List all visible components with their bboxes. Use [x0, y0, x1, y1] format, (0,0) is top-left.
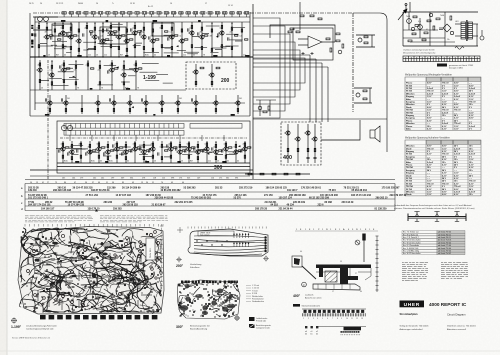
- capacitor C36: [167, 144, 168, 147]
- resistor R57: [241, 29, 243, 32]
- wire module300 upper rail C: [190, 124, 242, 129]
- resistor R70: [99, 65, 101, 68]
- wire stage column x144: [143, 22, 145, 57]
- transistor T45: [140, 150, 146, 154]
- transistor T9: [123, 39, 129, 43]
- power supply schematic frame: [403, 12, 478, 46]
- wire stage link x76: [69, 76, 76, 78]
- figure 300 hatched clusters: [180, 284, 236, 315]
- resistor R43: [181, 29, 183, 32]
- resistor R124: [165, 150, 168, 151]
- resistor R33: [143, 46, 145, 49]
- wire below module400 row: [245, 173, 310, 175]
- wire stage column x90: [89, 141, 91, 163]
- pcb donut pads: [27, 230, 161, 309]
- wire module300 bus a: [57, 162, 250, 164]
- wire stage column x87: [86, 22, 88, 57]
- node J28: [244, 142, 245, 143]
- wire stage link x64: [64, 67, 73, 69]
- wire module300 bus d: [30, 175, 250, 177]
- transistor T12: [149, 39, 155, 43]
- node pointer triangle: [95, 209, 98, 212]
- resistor R128: [179, 144, 181, 147]
- resistor R122: [161, 144, 163, 147]
- wire midrow col 3: [97, 95, 99, 114]
- wire feedback loop: [270, 25, 335, 42]
- capacitor C20: [45, 98, 46, 101]
- module 200 dashed border: [186, 62, 236, 89]
- resistor R125: [170, 143, 172, 146]
- mechanism capstan pin: [363, 234, 365, 262]
- diode D1 bridge: [443, 24, 451, 32]
- mechanism tray ticks: [318, 284, 350, 289]
- capacitor C29: [104, 152, 105, 155]
- wire stage column x212: [211, 22, 213, 57]
- resistor R58: [245, 39, 248, 40]
- pcb board outline 1-199: [18, 227, 164, 315]
- transistor T1: [43, 35, 49, 39]
- resistor R84: [81, 108, 83, 111]
- wire stage column x126: [125, 141, 127, 163]
- resistor R23: [118, 27, 120, 30]
- capacitor C4: [67, 32, 68, 35]
- wire stage column x222: [221, 22, 223, 57]
- wire stage link x71: [64, 35, 71, 37]
- capacitor C43: [241, 149, 242, 152]
- node J7: [94, 23, 95, 24]
- node J18: [123, 61, 124, 62]
- figure 200 stub wires with dots: [234, 233, 249, 247]
- wire stage column x119: [118, 22, 120, 57]
- capacitor C2: [51, 36, 52, 39]
- wire stage column x95: [94, 22, 96, 57]
- page left edge shadow: [6, 0, 8, 355]
- resistor R2: [38, 45, 40, 48]
- capacitor C27: [77, 149, 78, 152]
- parts mini table: [402, 231, 465, 256]
- resistor R143: [235, 144, 237, 147]
- node J10: [118, 23, 119, 24]
- footnote text block german: [25, 216, 93, 222]
- resistor R39: [165, 31, 168, 32]
- wire center divider vertical: [252, 4, 254, 179]
- registration cross figure300: [234, 315, 240, 321]
- transistor T10: [131, 31, 137, 35]
- pcb copper traces: [20, 228, 163, 314]
- wire midrow col 5: [129, 95, 131, 114]
- resistor R18: [102, 29, 104, 32]
- capacitor C12: [149, 36, 150, 39]
- node J23: [170, 142, 171, 143]
- wire dashdot boundary vertical: [352, 13, 354, 112]
- wire stage column x39: [38, 22, 40, 57]
- resistor R142: [229, 147, 232, 148]
- resistor R123: [161, 157, 163, 160]
- capacitor C19: [108, 70, 109, 73]
- resistor R137: [215, 144, 217, 147]
- resistor R74: [123, 65, 125, 68]
- capacitor C23: [141, 98, 142, 101]
- resistor PSU R5: [422, 39, 426, 41]
- resistor R45: [191, 25, 193, 28]
- paragraph german: [402, 263, 428, 281]
- module 400 dashed border: [281, 122, 321, 165]
- transistor T14: [178, 39, 184, 43]
- capacitor C14: [188, 28, 189, 31]
- capacitor C33: [140, 147, 141, 150]
- transistor T21: [108, 68, 114, 72]
- wire module400 output right: [321, 120, 360, 140]
- resistor R26: [126, 29, 128, 32]
- wire stage column x226: [225, 141, 227, 163]
- capacitor C9: [115, 32, 116, 35]
- capacitor C38: [185, 149, 186, 152]
- capacitor C17: [228, 37, 229, 40]
- node J16: [87, 61, 88, 62]
- wire left dashdot boundary: [47, 60, 49, 180]
- legend black tag: [437, 64, 447, 67]
- resistor R114: [129, 150, 132, 151]
- resistor R113: [125, 157, 127, 160]
- resistor R46: [191, 45, 193, 48]
- transistor T54: [232, 150, 238, 154]
- wire stage link x242: [235, 40, 242, 42]
- mechanism mount frame: [292, 256, 302, 267]
- resistor R40: [171, 27, 173, 30]
- resistor R116: [138, 147, 141, 148]
- resistor R79: [200, 67, 204, 69]
- resistor R144: [239, 150, 242, 151]
- resistor R27: [126, 48, 128, 51]
- resistor R52: [221, 25, 223, 28]
- resistor R117: [143, 144, 145, 147]
- resistor R38: [161, 45, 163, 48]
- node J9: [110, 23, 111, 24]
- resistor R118: [143, 157, 145, 160]
- capacitor PSU C1: [439, 28, 443, 30]
- wire stage link x63: [56, 148, 63, 150]
- resistor R151: [314, 148, 316, 151]
- capacitor C40: [203, 149, 204, 152]
- resistor R35: [152, 48, 154, 51]
- wire supply bus top: [35, 21, 250, 23]
- resistor PSU R3: [433, 26, 435, 30]
- resistor R48: [201, 46, 203, 49]
- resistor PSU R1: [413, 16, 417, 18]
- transistor T13: [168, 35, 174, 39]
- mechanism head bar: [316, 265, 371, 269]
- erase head symbol: [480, 30, 484, 40]
- mini strip dots: [341, 333, 361, 336]
- wire midrow col 6: [145, 95, 147, 114]
- wire stage column x136: [135, 60, 137, 90]
- logo UHER: [400, 301, 425, 308]
- resistor R71: [99, 82, 101, 85]
- node J14: [51, 61, 52, 62]
- mechanism pin index row: [296, 228, 375, 231]
- wire top-left input cluster: [33, 17, 58, 30]
- resistor R78: [195, 81, 197, 84]
- resistor R126: [170, 155, 172, 158]
- wire stage column x99: [98, 141, 100, 163]
- resistor R108: [111, 150, 114, 151]
- resistor R22: [114, 31, 117, 32]
- pcb right vertical ruler: [160, 224, 163, 290]
- capacitor C35: [158, 152, 159, 155]
- node J26: [206, 142, 207, 143]
- resistor R82: [49, 108, 51, 111]
- wire stage column x72: [71, 141, 73, 163]
- resistor R14: [86, 25, 88, 28]
- resistor R109: [116, 143, 118, 146]
- resistor R55: [231, 46, 233, 49]
- capacitor C30: [113, 144, 114, 147]
- resistor R44: [185, 39, 188, 40]
- figure 300 component pads: [178, 282, 239, 318]
- resistor R134: [197, 157, 199, 160]
- capacitor C7: [99, 36, 100, 39]
- resistor R60: [39, 79, 41, 82]
- resistor R107: [107, 157, 109, 160]
- wire stage link x162: [162, 146, 169, 148]
- capacitor C11: [140, 32, 141, 35]
- resistor R147: [248, 147, 251, 148]
- potentiometer arrow wedges: [59, 30, 241, 155]
- wire stage column x198: [197, 141, 199, 163]
- wire stage column x40: [39, 60, 41, 90]
- resistor R77: [139, 68, 142, 69]
- transistor T37: [59, 147, 65, 151]
- wire PSU mid horizontals: [403, 30, 455, 42]
- resistor R29: [134, 25, 136, 28]
- transistor T7: [107, 31, 113, 35]
- figure 300 callout list: [246, 284, 264, 303]
- wire nested routing loops: [253, 18, 305, 118]
- transistor T40: [95, 147, 101, 151]
- capacitor C24: [191, 98, 192, 101]
- wire stage link x202: [202, 33, 209, 35]
- wire stage column x103: [102, 22, 104, 57]
- transistor T3: [67, 35, 73, 39]
- resistor R69: [91, 68, 94, 69]
- node J13: [231, 23, 232, 24]
- resistor R28: [130, 39, 133, 40]
- resistor R51: [211, 48, 213, 51]
- resistor R61: [51, 65, 53, 68]
- resistor R89: [161, 108, 163, 111]
- resistor R66: [75, 65, 77, 68]
- resistor R41: [171, 46, 173, 49]
- transistor T46: [149, 147, 155, 151]
- resistor PSU R2: [427, 20, 431, 22]
- resistor R120: [152, 143, 154, 146]
- component cluster right of opamp: [336, 33, 344, 54]
- figure 200 top tick row: [188, 227, 266, 229]
- transistor T41: [104, 150, 110, 154]
- component cluster bottom-left corner: [256, 100, 276, 116]
- wire module300 bus b: [57, 166, 250, 168]
- resistor R21: [110, 45, 112, 48]
- resistor R72: [111, 63, 113, 66]
- bus junction dots: [38, 56, 248, 57]
- figure 200 harness outline: [188, 229, 268, 256]
- wire stage column x171: [170, 141, 172, 163]
- transistor T50: [194, 150, 200, 154]
- connector strip teeth: [303, 313, 366, 316]
- wire midrow col 9: [195, 95, 197, 114]
- wire midrow col 2: [81, 95, 83, 114]
- resistor R103: [98, 143, 100, 146]
- node J22: [134, 142, 135, 143]
- node J1: [38, 23, 39, 24]
- mechanism index underline: [295, 230, 378, 232]
- node J27: [215, 142, 216, 143]
- capacitor C18: [60, 65, 61, 68]
- wire stage column x172: [171, 22, 173, 57]
- wire PSU top pins: [405, 2, 410, 12]
- wire module200 col 0: [195, 64, 197, 87]
- wire stage column x135: [134, 141, 136, 163]
- pcb component lead lines: [31, 238, 157, 310]
- oscillator transformer TR1: [455, 20, 478, 41]
- wire center divider vertical 2: [249, 12, 251, 116]
- resistor R15: [90, 31, 93, 32]
- wire top block h-link row a: [35, 16, 250, 18]
- wire module300 upper rail A: [64, 124, 184, 129]
- transistor T43: [122, 150, 128, 154]
- node J8: [102, 23, 103, 24]
- resistor row near opamp: [288, 31, 332, 52]
- resistor R4: [50, 35, 53, 36]
- wire stage link x47: [40, 42, 47, 44]
- wire module400 col 1: [297, 124, 299, 163]
- transistor T24: [192, 70, 198, 74]
- resistor R6: [58, 39, 61, 40]
- transistor T11: [140, 35, 146, 39]
- legend swatch solid: [249, 317, 255, 321]
- figure 200 inner wires: [193, 236, 264, 256]
- wire stage column x63: [62, 141, 64, 163]
- resistor R34: [152, 29, 154, 32]
- node J3: [54, 23, 55, 24]
- resistor R30: [134, 45, 136, 48]
- component cluster far right lower: [354, 88, 372, 103]
- figure 200 terminal dots grid: [196, 234, 249, 246]
- wire opamp input leads: [298, 39, 335, 45]
- capacitor C15: [198, 32, 199, 35]
- transistor T32: [158, 101, 164, 105]
- wire stage column x64: [63, 60, 65, 90]
- resistor R16: [94, 27, 96, 30]
- transistor T33: [174, 101, 180, 105]
- paragraph english: [441, 263, 468, 279]
- resistor R49: [205, 35, 208, 36]
- resistor R94: [62, 143, 64, 146]
- wire module300 upper rail B: [64, 131, 184, 136]
- wire schematic top boundary dash-dot: [33, 12, 353, 14]
- resistor R19: [106, 39, 109, 40]
- resistor R56: [235, 35, 238, 36]
- mechanism head block hatched: [325, 271, 337, 282]
- wire stage column x180: [179, 141, 181, 163]
- resistor R8: [62, 45, 64, 48]
- node J20: [98, 142, 99, 143]
- transistor T20: [60, 68, 66, 72]
- resistor R130: [188, 143, 190, 146]
- scale ruler bar: [403, 56, 480, 62]
- mechanism small callouts: [300, 251, 362, 293]
- transistor T39: [86, 150, 92, 154]
- resistor R24: [118, 46, 120, 49]
- wire module400 col 0: [287, 124, 289, 163]
- capacitor C5: [83, 33, 84, 36]
- schematic solid accents: [43, 20, 249, 163]
- wire stage link x136: [129, 68, 136, 70]
- capacitor C44: [306, 157, 309, 158]
- transistor T6: [99, 39, 105, 43]
- transistor input 300 block: [61, 125, 72, 130]
- figure 200 dot column labels: [268, 237, 269, 253]
- capacitor C25: [59, 149, 60, 152]
- resistor R10: [70, 46, 72, 49]
- resistor R54: [231, 27, 233, 30]
- capacitor C26: [68, 152, 69, 155]
- resistor R104: [98, 155, 100, 158]
- wire stage column x242: [241, 22, 243, 57]
- transistor PSU T1: [407, 12, 412, 30]
- transistor T59: [311, 137, 317, 141]
- tiny header annotations above frame: [29, 2, 233, 8]
- resistor R63: [63, 63, 64, 66]
- wire module200 col 1: [211, 64, 213, 87]
- resistor R11: [74, 35, 77, 36]
- wire stage link x127: [127, 33, 136, 35]
- page margin strip: [0, 0, 7, 355]
- wire stage link x162: [162, 47, 171, 49]
- mechanism right scale: [376, 236, 379, 292]
- figure 300 white pad holes: [184, 285, 234, 315]
- figure 200 title box: [198, 231, 234, 236]
- wire midrow col 8: [177, 95, 179, 114]
- resistor R149: [297, 148, 299, 151]
- guide bar drawing: [408, 212, 466, 222]
- wire right crossbar: [253, 118, 387, 120]
- capacitor C16: [218, 33, 219, 36]
- wire stage link x198: [198, 149, 207, 151]
- wire stage link x126: [119, 153, 126, 155]
- PSU tiny value labels: [406, 15, 459, 41]
- transistor T53: [222, 147, 228, 151]
- transistor T58: [304, 131, 310, 135]
- wire stage column x47: [46, 22, 48, 57]
- resistor R95: [62, 155, 64, 158]
- wire module300 inner dash-dot: [60, 137, 247, 139]
- wire stage column x63: [62, 22, 64, 57]
- wire stage column x162: [161, 22, 163, 57]
- wire stage column x207: [206, 141, 208, 163]
- resistor R67: [75, 82, 77, 85]
- wire module300 bus c: [30, 169, 253, 171]
- transistor T2: [59, 31, 65, 35]
- resistor R127: [174, 147, 177, 148]
- wire stage link x124: [124, 69, 133, 71]
- wire left frame vertical: [29, 13, 31, 116]
- wire block divider: [30, 115, 250, 117]
- component index row text: [28, 187, 407, 211]
- resistor R25: [122, 35, 125, 36]
- pin assignment mini table: [305, 326, 318, 336]
- resistor R80: [211, 81, 213, 84]
